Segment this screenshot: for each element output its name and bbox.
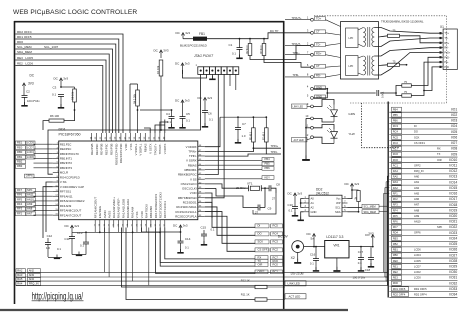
node label RA5 AN4	[16, 278, 26, 282]
svg-text:100.0*16v: 100.0*16v	[27, 99, 40, 103]
wire io row 29	[389, 268, 457, 270]
frame border bottom	[0, 309, 348, 311]
svg-text:I/O22: I/O22	[449, 225, 457, 229]
ground JTAG pin3	[211, 74, 213, 78]
pin 12 left RF6/AN11	[53, 195, 59, 197]
svg-text:RA0 AN0 LEDA: RA0 AN0 LEDA	[126, 199, 130, 218]
svg-text:A1: A1	[311, 201, 315, 205]
wire RC6 net	[160, 228, 255, 263]
pin bottom RF1/AN6/C2OUT	[94, 220, 96, 228]
svg-text:3V3: 3V3	[368, 231, 374, 235]
wire io row 34	[389, 296, 457, 298]
svg-text:LCD6: LCD6	[27, 155, 34, 159]
connector eth pin 9	[311, 105, 314, 108]
node label RB0	[16, 151, 26, 155]
wire OSC2	[205, 184, 249, 188]
node label TX RC6	[255, 259, 268, 263]
svg-text:RD2 OFF4: RD2 OFF4	[17, 30, 32, 34]
pin 7 left MCLR	[53, 172, 59, 174]
frame border left	[14, 21, 16, 304]
connector JTAG pin 7	[233, 67, 239, 75]
transformer block box	[341, 22, 379, 79]
wire RC2 net	[205, 216, 255, 251]
svg-text:V SSRX: V SSRX	[186, 159, 197, 163]
power DC 3v3 (C13)	[71, 225, 73, 232]
wire RA4 FRQ_IN row	[16, 284, 388, 286]
wire C3 to R8	[61, 86, 75, 88]
wire io row 7	[389, 145, 457, 147]
wire bottom rail	[94, 231, 160, 233]
svg-text:DI: DI	[414, 124, 417, 128]
wire eeprom gnd	[301, 212, 304, 220]
pin bottom AVDD	[103, 220, 105, 228]
pin 4 left RB1/INT1	[53, 157, 59, 159]
svg-text:I/O9: I/O9	[451, 152, 457, 156]
svg-text:R2 49.9: R2 49.9	[247, 45, 249, 54]
pin 11 left RF7/SS1	[53, 191, 59, 193]
node label PB5 io2	[392, 113, 402, 117]
svg-text:C7: C7	[242, 122, 246, 126]
svg-text:RE2 LCD6: RE2 LCD6	[17, 62, 33, 66]
svg-text:RF6: RF6	[393, 220, 398, 224]
pin 47 right TPIN+	[198, 150, 205, 152]
svg-text:RD2 OFF4: RD2 OFF4	[393, 292, 406, 296]
svg-text:SCL_MEM: SCL_MEM	[17, 45, 32, 49]
wire C13 rail	[72, 231, 94, 233]
wire bottom pin drop	[145, 228, 147, 233]
svg-text:SCL_MEM: SCL_MEM	[364, 205, 376, 208]
wire bus RD1 OFF5	[15, 39, 119, 133]
pin bottom RB4/KBI0	[150, 220, 152, 228]
svg-text:RC2: RC2	[273, 248, 279, 252]
svg-text:LPF: LPF	[349, 36, 354, 40]
wire left pin RF4	[34, 205, 53, 207]
wire VSS pin9 down	[46, 182, 53, 232]
transformer LPF2	[346, 56, 359, 76]
svg-text:RE3 LCD5: RE3 LCD5	[17, 56, 33, 60]
wire io row 13	[389, 179, 457, 181]
svg-text:RE5 P3C: RE5 P3C	[105, 144, 109, 156]
pin 35 right RC4/SDI1/SDA1	[198, 206, 205, 208]
connector eth pin 6 CT	[311, 66, 314, 69]
svg-text:TPIN+: TPIN+	[188, 149, 197, 153]
svg-text:RC3: RC3	[393, 124, 399, 128]
pin 37 right RB7/KBI3/PGD	[198, 197, 205, 199]
svg-text:I/O10: I/O10	[449, 158, 457, 162]
svg-text:RE1: RE1	[17, 141, 23, 145]
node label LINK LED (eth)	[292, 104, 308, 108]
svg-text:I/O23: I/O23	[449, 231, 457, 235]
wire PB4	[205, 160, 262, 162]
node label RF5 io20	[392, 214, 402, 218]
svg-text:0.1: 0.1	[358, 261, 362, 265]
svg-text:RA2: RA2	[17, 268, 23, 272]
connector X1 pin RX+	[441, 42, 444, 44]
resistor R8 10k	[74, 87, 76, 89]
svg-text:0.001: 0.001	[381, 91, 385, 98]
svg-text:V DD: V DD	[190, 191, 197, 195]
wire VSSTX riser	[144, 128, 150, 133]
node label RF7 io22	[392, 225, 402, 229]
wire VDDTX riser	[164, 120, 166, 134]
svg-text:RF1: RF1	[393, 191, 398, 195]
connector JTAG pin 6	[227, 67, 233, 75]
connector X2 DS-210B	[292, 241, 304, 253]
svg-text:RC1 T1OSI ECCP2: RC1 T1OSI ECCP2	[154, 194, 158, 219]
svg-text:RC4 SDI1 SDA1: RC4 SDI1 SDA1	[176, 205, 197, 209]
svg-text:AN2: AN2	[414, 186, 420, 190]
svg-text:RD1 OFF5: RD1 OFF5	[393, 287, 406, 291]
svg-text:TPOUT+: TPOUT+	[153, 143, 157, 155]
svg-text:AN6: AN6	[414, 197, 420, 201]
wire io row 23	[389, 235, 457, 237]
svg-text:RG4 CCP5 P1D: RG4 CCP5 P1D	[60, 175, 80, 179]
svg-text:I/O27: I/O27	[449, 253, 457, 257]
connector eth pin 11	[311, 126, 314, 129]
connector eth pin 7 RD+	[311, 53, 314, 56]
connector JTAG pin 4	[215, 67, 221, 75]
svg-text:OFF6: OFF6	[26, 174, 33, 178]
svg-text:PB6: PB6	[265, 166, 271, 170]
svg-text:SCL: SCL	[335, 205, 341, 209]
svg-text:I/O25: I/O25	[449, 242, 457, 246]
connector X1 pin PsD+	[441, 51, 444, 53]
pin 36 right RC5/SDO1	[198, 201, 205, 203]
svg-text:AN8: AN8	[414, 208, 420, 212]
svg-text:RB4 KBI0: RB4 KBI0	[149, 206, 153, 219]
wire TPIN+ tag	[285, 54, 311, 56]
pin 38 right V DD	[198, 192, 205, 194]
svg-text:A0: A0	[311, 197, 315, 201]
svg-text:V SS: V SS	[190, 177, 197, 181]
node label RX RC7	[255, 256, 268, 260]
node label RE0	[16, 146, 26, 150]
svg-text:RC5 SDO1: RC5 SDO1	[183, 200, 197, 204]
ground under C17	[360, 267, 362, 270]
svg-text:RA5 AN4: RA5 AN4	[131, 206, 135, 218]
pin top RE4/P3B	[100, 133, 102, 141]
wire JTAG PGC	[205, 74, 219, 174]
resistor R13 2k	[357, 191, 360, 202]
svg-text:LCD0: LCD0	[414, 276, 421, 280]
svg-text:RF6: RF6	[17, 193, 23, 197]
svg-text:I/O29: I/O29	[449, 264, 457, 268]
svg-text:RE3: RE3	[393, 276, 399, 280]
wire io row 24	[389, 240, 457, 242]
svg-text:I/O4: I/O4	[451, 124, 457, 128]
node label RF4	[16, 202, 26, 206]
wire io row 21	[389, 223, 457, 225]
svg-text:RA3 AN3 VREF+: RA3 AN3 VREF+	[112, 197, 116, 218]
svg-text:X1: X1	[440, 25, 444, 29]
wire io row 15	[389, 190, 457, 192]
connector eth pin 3 CT	[311, 31, 314, 34]
svg-text:R5 49.9: R5 49.9	[251, 131, 253, 140]
svg-text:DO: DO	[414, 130, 418, 134]
pin bottom RC1/T1OSI/ECCP2	[155, 220, 157, 228]
svg-text:V DD: V DD	[124, 144, 128, 151]
pin top V DD	[125, 133, 127, 141]
node label RC4 io5	[392, 130, 402, 134]
svg-text:0.1: 0.1	[209, 118, 213, 122]
wire left pin RE1	[34, 143, 53, 145]
node label RF6 io21	[392, 219, 402, 223]
node label RC3 io4	[392, 124, 402, 128]
resistor R3 49.9	[262, 44, 266, 56]
pin 2 left RE0/P2C	[53, 148, 59, 150]
svg-text:RD+: RD+	[316, 52, 322, 56]
ground under C1	[239, 55, 241, 58]
wire R6 left	[43, 121, 49, 130]
svg-text:27: 27	[272, 197, 276, 201]
wire RA5 drop from chip	[131, 228, 133, 282]
wire io row 11	[389, 167, 457, 169]
svg-text:RB3 INT3: RB3 INT3	[60, 166, 73, 170]
svg-text:V SS: V SS	[129, 144, 133, 151]
svg-text:I/O3: I/O3	[451, 119, 457, 123]
node label RF3	[16, 207, 26, 211]
node label PB4 io1	[392, 107, 402, 111]
wire eeprom vcc	[348, 190, 353, 199]
pin bottom RA3/AN3/VREF+	[113, 220, 115, 228]
svg-text:RD0 ECCP4 P3D: RD0 ECCP4 P3D	[114, 144, 118, 166]
pin 14 left RF4/AN9	[53, 205, 59, 207]
node label RC2 io7	[392, 141, 402, 145]
frame border top	[14, 21, 284, 23]
power DC 3v3 (C5)	[182, 100, 184, 108]
svg-text:OSC1 CLKI: OSC1 CLKI	[182, 187, 197, 191]
svg-text:I/O33: I/O33	[449, 287, 457, 291]
ground under C14	[180, 249, 182, 252]
wire RA3 drop from chip	[108, 228, 110, 278]
wire io row 18	[389, 207, 457, 209]
wire RA2 drop from chip	[104, 228, 106, 273]
wire VR1 out rail	[349, 246, 373, 248]
wire io row 5	[389, 134, 457, 136]
wire led common to ground	[306, 117, 311, 119]
svg-text:0.1: 0.1	[57, 247, 61, 251]
node label DO RC4	[255, 232, 269, 236]
svg-text:CS OFF1: CS OFF1	[258, 248, 270, 252]
svg-text:OIR: OIR	[258, 263, 263, 267]
svg-text:FRQ_IN: FRQ_IN	[29, 282, 39, 286]
svg-text:RF1 AN6 C2OUT: RF1 AN6 C2OUT	[94, 197, 98, 219]
ground X2	[297, 253, 299, 263]
pin 39 right OSC1/CLKI	[198, 187, 205, 189]
wire io row 31	[389, 280, 457, 282]
node label LINK LED	[267, 286, 285, 288]
svg-text:RE1: RE1	[393, 264, 399, 268]
svg-text:RC1: RC1	[273, 270, 279, 274]
svg-text:PsD: PsD	[444, 66, 449, 69]
svg-text:XT1: XT1	[247, 182, 253, 186]
node label RC7 io8	[392, 146, 402, 150]
wire io row 27	[389, 257, 457, 259]
svg-text:TPIN+: TPIN+	[271, 144, 279, 148]
node label RC0 io10	[392, 158, 402, 162]
power DC 3v3 (C14)	[180, 225, 182, 232]
wire TPOUT- riser from chip	[155, 125, 165, 133]
svg-text:RB5 KBI1: RB5 KBI1	[184, 168, 197, 172]
svg-text:RBIAS: RBIAS	[144, 144, 148, 153]
svg-text:AN7: AN7	[27, 212, 33, 216]
node label RA4 FRQ_IN	[16, 282, 26, 286]
svg-text:DS-210B: DS-210B	[291, 271, 304, 275]
svg-text:TX+: TX+	[444, 32, 449, 35]
wire io row 1	[389, 111, 457, 113]
pin 5 left RB2/INT2	[53, 162, 59, 164]
wire vdd rail above chip	[140, 109, 172, 111]
wire X1 unused pairs to bob-smith	[411, 57, 439, 85]
pin top RE5/P3C	[105, 133, 107, 141]
node label RF5	[16, 198, 26, 202]
svg-text:I/O20: I/O20	[449, 214, 457, 218]
svg-text:RF4: RF4	[17, 202, 23, 206]
node label RA4 io12	[392, 169, 402, 173]
svg-text:RC6 TX1 CK1: RC6 TX1 CK1	[163, 201, 167, 219]
wire JTAG PGD	[205, 74, 224, 197]
svg-text:RC0: RC0	[393, 158, 399, 162]
node label RB1 io26	[392, 247, 402, 251]
ground under C12	[56, 255, 58, 258]
pin 16 left RF2/AN7/C2OUT	[53, 214, 59, 216]
svg-text:RC0 T1OSO T13CKI: RC0 T1OSO T13CKI	[158, 192, 162, 218]
resistor R4 2.26k (RBIAS)	[136, 90, 140, 106]
pin 40 right OSC2/CLKO	[198, 183, 205, 185]
svg-text:RB2 INT2: RB2 INT2	[60, 161, 73, 165]
wire left pin RE0	[34, 148, 53, 150]
svg-text:RF5 AN10 CVREF2: RF5 AN10 CVREF2	[60, 199, 85, 203]
wire left pin RB2	[34, 162, 53, 164]
svg-text:RA2: RA2	[393, 186, 399, 190]
ground under C11/C13	[78, 252, 80, 255]
svg-text:RF2 AN7 C2OUT: RF2 AN7 C2OUT	[60, 213, 82, 217]
svg-text:RE2 P2B: RE2 P2B	[90, 144, 94, 155]
power DC 3v3 (JTAG)	[182, 63, 184, 70]
svg-text:RB0 INT0 FLT0: RB0 INT0 FLT0	[60, 152, 79, 156]
eeprom pin A0	[304, 198, 310, 200]
pin top V SSPLL	[135, 133, 137, 141]
svg-text:PB4: PB4	[265, 157, 271, 161]
wire PB6	[205, 169, 262, 171]
svg-text:RC5: RC5	[393, 135, 399, 139]
svg-text:TD-: TD-	[316, 42, 321, 46]
pin 6 left RB3/INT3	[53, 167, 59, 169]
svg-text:DD1: DD1	[59, 128, 66, 132]
svg-text:RA4: RA4	[393, 169, 399, 173]
wire RC3 net	[205, 212, 255, 244]
svg-text:V SSPLL: V SSPLL	[134, 143, 138, 155]
wire TPIN-	[205, 142, 266, 156]
svg-text:I/O17: I/O17	[449, 197, 457, 201]
wire bottom pin drop	[108, 228, 110, 233]
node label OFF2 RC1	[255, 270, 268, 274]
ground led	[305, 155, 307, 159]
svg-text:C3: C3	[53, 86, 57, 90]
ground under C4	[171, 124, 173, 127]
svg-text:I/O30: I/O30	[449, 270, 457, 274]
svg-text:TRJ0026ABNL/SK02-111006NL: TRJ0026ABNL/SK02-111006NL	[381, 20, 424, 24]
wire io row 33	[389, 291, 457, 293]
node label RD2 OFF4 io34	[392, 292, 409, 296]
svg-text:AN10: AN10	[414, 220, 421, 224]
svg-text:0.1: 0.1	[186, 119, 190, 123]
svg-text:RC3: RC3	[273, 240, 279, 244]
svg-text:R3 49.9: R3 49.9	[261, 45, 263, 54]
svg-text:DC: DC	[30, 74, 35, 78]
wire TPOUT+ riser from chip	[160, 122, 168, 133]
svg-text:R12 1K: R12 1K	[241, 279, 250, 283]
svg-text:0.1: 0.1	[185, 246, 189, 250]
resistor R2 49.9	[248, 44, 252, 56]
svg-text:V SS: V SS	[135, 212, 139, 219]
svg-text:TPIN-: TPIN-	[271, 150, 278, 154]
svg-text:FB1: FB1	[199, 32, 205, 36]
svg-text:AN3: AN3	[29, 273, 35, 277]
svg-text:C16: C16	[310, 252, 316, 256]
ground under C10	[294, 212, 296, 215]
svg-text:C10: C10	[288, 203, 294, 207]
pin bottom V SS	[136, 220, 138, 228]
resistor R5 49.9	[252, 128, 256, 142]
wire io row 6	[389, 139, 457, 141]
wire left pin RF6	[34, 195, 53, 197]
svg-text:RE0: RE0	[393, 259, 399, 263]
svg-text:LCD4: LCD4	[27, 150, 34, 154]
svg-text:RA2 AN2 VREF-: RA2 AN2 VREF-	[117, 198, 121, 218]
magjack LED dashed outline	[362, 103, 401, 148]
svg-text:C6: C6	[208, 112, 212, 116]
wire bus RD0	[15, 44, 116, 133]
svg-text:RE3 P2C: RE3 P2C	[95, 144, 99, 156]
svg-text:C12: C12	[47, 234, 53, 238]
svg-text:SPK: SPK	[27, 188, 33, 192]
node label RF2	[16, 212, 26, 216]
svg-text:RB0: RB0	[393, 253, 399, 257]
svg-text:RC2: RC2	[393, 141, 399, 145]
pin top RE2/P2B	[91, 133, 93, 141]
power DC 3V3 out	[372, 235, 374, 247]
wire io row 26	[389, 251, 457, 253]
pin bottom AVSS	[108, 220, 110, 228]
svg-text:RC3 SCK1 SCL1: RC3 SCK1 SCL1	[176, 210, 197, 214]
wire vddrx	[205, 117, 220, 147]
node label SCL_MEM	[362, 204, 379, 208]
wire vdd-tp rail	[207, 33, 311, 39]
pin 3 left RB0/INT0/FLT0	[53, 153, 59, 155]
node label RE3 io31	[392, 276, 402, 280]
svg-text:RA3: RA3	[393, 180, 399, 184]
svg-text:RD0: RD0	[393, 281, 399, 285]
ground under C2	[24, 102, 26, 105]
connector X1 pin TX-	[441, 37, 444, 39]
pin 45 right V SSRX	[198, 160, 205, 162]
svg-text:LCD7: LCD7	[27, 145, 34, 149]
svg-text:C15: C15	[201, 226, 207, 230]
svg-text:I/O13: I/O13	[449, 175, 457, 179]
wire bus RE3	[15, 60, 106, 133]
wire eeprom address pins	[301, 199, 304, 208]
wire io row 22	[389, 229, 457, 231]
svg-text:0.1: 0.1	[289, 209, 293, 213]
node label RB3 io24	[392, 236, 402, 240]
svg-text:ACT LED: ACT LED	[289, 295, 301, 299]
svg-text:C18: C18	[365, 268, 371, 272]
wire R6 right to R8	[64, 102, 75, 121]
svg-text:AN5: AN5	[414, 191, 420, 195]
ground VR1	[336, 258, 338, 270]
wire rbias top	[130, 83, 138, 85]
